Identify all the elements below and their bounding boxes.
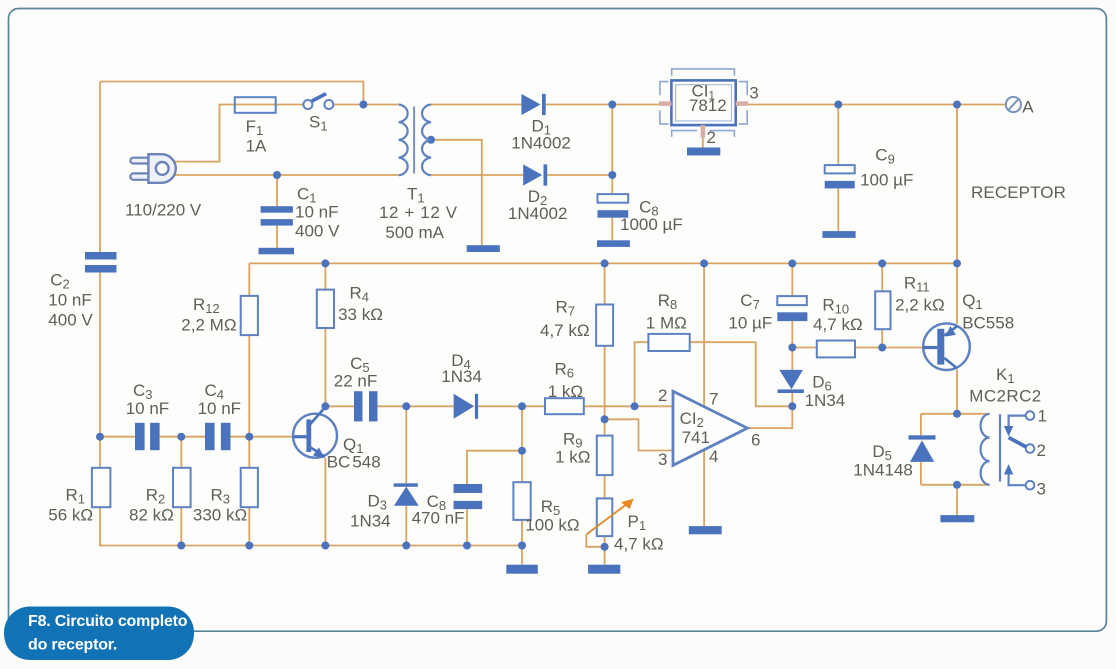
- svg-text:1 kΩ: 1 kΩ: [548, 382, 583, 401]
- svg-text:10 nF: 10 nF: [126, 399, 169, 418]
- capacitor C2: [85, 252, 117, 260]
- wire R10 row to Q1 base: [792, 347, 923, 349]
- node C3 left: [96, 433, 104, 441]
- wire signal row C5 to D4: [378, 405, 454, 407]
- wire +12V rail: [249, 262, 957, 264]
- relay contact 2 arm: [1026, 444, 1035, 453]
- node C8b tap: [518, 447, 526, 455]
- svg-text:56 kΩ: 56 kΩ: [48, 506, 93, 525]
- wire C3 C4 row to Q1 base: [100, 436, 293, 438]
- diode D5: [909, 435, 936, 439]
- svg-text:470 nF: 470 nF: [412, 509, 465, 528]
- svg-text:6: 6: [751, 431, 760, 450]
- node bottom rail D3: [402, 542, 410, 550]
- potentiometer P1 arrow: [586, 504, 626, 534]
- wire CI2 pin3: [605, 419, 673, 450]
- wire CI2 pin7 column: [703, 263, 705, 407]
- node relay bottom: [953, 481, 961, 489]
- ground CI2 pin4: [689, 526, 722, 534]
- wire CI1 output to terminal A: [748, 104, 1005, 106]
- svg-text:MC2RC2: MC2RC2: [969, 387, 1041, 406]
- svg-text:1N34: 1N34: [441, 367, 482, 386]
- svg-text:1N34: 1N34: [805, 391, 846, 410]
- svg-text:BC558: BC558: [962, 314, 1014, 333]
- diode D1: [521, 94, 540, 115]
- svg-text:330 kΩ: 330 kΩ: [193, 506, 247, 525]
- svg-text:2,2 kΩ: 2,2 kΩ: [895, 296, 945, 315]
- svg-text:400 V: 400 V: [295, 222, 340, 241]
- resistor R7: [596, 305, 613, 346]
- node bottom rail R2: [177, 542, 185, 550]
- resistor R5: [513, 482, 530, 520]
- svg-text:1 kΩ: 1 kΩ: [555, 448, 590, 467]
- resistor R12: [241, 296, 258, 335]
- svg-text:1N4002: 1N4002: [511, 134, 571, 153]
- relay K1 coil: [981, 414, 990, 485]
- node rail R7: [601, 259, 609, 267]
- svg-text:12 + 12 V: 12 + 12 V: [379, 203, 458, 222]
- wire T1 secondary bottom to D2: [431, 174, 523, 176]
- svg-text:2,2 MΩ: 2,2 MΩ: [181, 316, 236, 335]
- node D2 output: [608, 171, 616, 179]
- svg-text:82 kΩ: 82 kΩ: [129, 506, 174, 525]
- svg-text:1000 µF: 1000 µF: [620, 215, 683, 234]
- CI1 pin input: [659, 101, 672, 106]
- svg-text:A: A: [1022, 98, 1034, 117]
- wire feedback via R8: [635, 342, 793, 406]
- svg-text:F8. Circuito completo: F8. Circuito completo: [28, 613, 188, 630]
- node R2 tap: [177, 433, 185, 441]
- node bottom rail emitter: [321, 542, 329, 550]
- resistor R8: [648, 334, 689, 351]
- mains plug: [130, 158, 149, 164]
- wire R3 column: [248, 437, 250, 546]
- svg-text:1A: 1A: [246, 137, 267, 156]
- capacitor C7: [777, 296, 807, 305]
- node bottom rail R3: [245, 542, 253, 550]
- resistor R9: [597, 436, 613, 476]
- CI1 bracket left: [660, 82, 669, 124]
- diode D4: [454, 394, 475, 419]
- wire mains neutral plug to T1 primary bottom: [174, 174, 399, 176]
- node T1 center tap: [427, 136, 435, 144]
- wire D5 column: [920, 414, 922, 485]
- wire right vertical A rail to Q1 emitter: [956, 105, 958, 325]
- wire C1 branch: [276, 175, 278, 248]
- CI1 pin 3 output: [736, 101, 749, 106]
- svg-text:3: 3: [749, 84, 758, 103]
- CI1 pin 2 ground: [701, 125, 706, 138]
- wire C8 column: [611, 105, 613, 241]
- ground relay K1: [940, 515, 974, 522]
- ground C9: [822, 231, 855, 238]
- ground T1 center tap: [467, 245, 500, 252]
- svg-text:1 MΩ: 1 MΩ: [646, 314, 687, 333]
- node Q1 collector: [321, 402, 329, 410]
- svg-text:33 kΩ: 33 kΩ: [338, 305, 383, 324]
- transformer T1 primary winding: [399, 105, 408, 176]
- wire signal row D4 to R6: [478, 405, 545, 407]
- CI1 bracket bottom: [672, 131, 735, 137]
- svg-text:10 nF: 10 nF: [198, 399, 241, 418]
- ground R5: [506, 565, 538, 574]
- wire C8b jog: [467, 451, 522, 546]
- svg-text:3: 3: [1037, 480, 1046, 499]
- resistor R4: [317, 290, 334, 328]
- wire signal row R6 to CI2 pin2: [584, 405, 673, 407]
- node bottom rail R5: [518, 542, 526, 550]
- wire S1 to T1 primary top: [333, 104, 398, 106]
- relay K1 core: [999, 414, 1001, 481]
- wire CI2 pin6 to D6 node: [747, 406, 792, 428]
- wire R12 column: [248, 263, 250, 436]
- wire R2 column: [180, 437, 182, 546]
- svg-text:2: 2: [658, 386, 667, 405]
- ground P1: [588, 565, 620, 574]
- capacitor C1: [261, 206, 293, 213]
- svg-text:1N4148: 1N4148: [853, 461, 913, 480]
- fuse F1: [235, 97, 276, 113]
- resistor R11: [875, 291, 890, 329]
- svg-text:110/220 V: 110/220 V: [125, 201, 202, 220]
- node rail C7: [788, 259, 796, 267]
- svg-text:7: 7: [709, 390, 718, 409]
- resistor R1: [92, 468, 111, 507]
- node feedback tap: [631, 402, 639, 410]
- node A rail corner: [953, 101, 961, 109]
- wire mains live plug to fuse F1 to S1: [174, 105, 303, 162]
- capacitor C5: [354, 391, 363, 421]
- wire R5 column: [521, 406, 523, 564]
- svg-text:do receptor.: do receptor.: [28, 637, 117, 654]
- wire D3 column: [405, 406, 407, 545]
- node rail right end: [953, 259, 961, 267]
- op-amp CI2 741: [673, 391, 747, 465]
- diode D3: [394, 483, 418, 487]
- svg-text:400 V: 400 V: [48, 311, 93, 330]
- regulator CI1 7812 box: [671, 80, 735, 125]
- svg-text:2: 2: [707, 128, 716, 147]
- svg-text:22 nF: 22 nF: [334, 372, 377, 391]
- wire Q1 collector to relay K1: [956, 370, 958, 414]
- node bottom rail C8b: [463, 542, 471, 550]
- svg-text:100 µF: 100 µF: [860, 171, 913, 190]
- resistor R2: [173, 468, 191, 507]
- wire signal row collector to C5: [325, 405, 354, 407]
- wire C9 column: [837, 105, 839, 232]
- transistor Q1 BC558: [923, 323, 970, 370]
- svg-text:2: 2: [1037, 441, 1046, 460]
- wire Q1 emitter column: [324, 458, 326, 546]
- potentiometer P1: [597, 498, 613, 536]
- wire relay ground stub: [956, 485, 958, 515]
- node D1 output: [608, 101, 616, 109]
- wire R11 column: [881, 263, 883, 347]
- node D3 tap: [402, 402, 410, 410]
- svg-text:4,7 kΩ: 4,7 kΩ: [813, 315, 863, 334]
- capacitor C3: [135, 423, 145, 450]
- svg-text:1: 1: [1038, 407, 1047, 426]
- node P1 ground: [601, 543, 609, 551]
- svg-text:10 nF: 10 nF: [48, 291, 91, 310]
- node R9 pin3: [601, 415, 609, 423]
- wire T1 center tap to ground: [431, 140, 482, 245]
- wire T1 secondary top to D1: [431, 104, 521, 106]
- svg-text:7812: 7812: [689, 96, 727, 115]
- node R10 R11 base: [878, 344, 886, 352]
- transformer T1 secondary winding: [422, 105, 431, 176]
- CI1 bracket right: [739, 82, 748, 124]
- ground C8: [597, 240, 630, 247]
- node S1-T1 junction: [359, 101, 367, 109]
- node C1 tap: [273, 171, 281, 179]
- svg-text:100 kΩ: 100 kΩ: [525, 516, 579, 535]
- svg-text:RECEPTOR: RECEPTOR: [971, 183, 1066, 202]
- node relay top: [953, 410, 961, 418]
- transistor Q1 BC548: [293, 414, 337, 458]
- svg-text:4,7 kΩ: 4,7 kΩ: [614, 535, 664, 554]
- CI1 bracket top: [672, 69, 735, 76]
- svg-text:10 nF: 10 nF: [295, 203, 338, 222]
- wire D1 cathode to CI1 input: [546, 104, 659, 106]
- node rail R11: [878, 259, 886, 267]
- node R5 tap: [518, 402, 526, 410]
- svg-text:741: 741: [682, 428, 710, 447]
- capacitor C8 1000uF: [598, 194, 629, 203]
- wire CI2 pin4 to ground: [703, 450, 705, 527]
- node C7 R10: [788, 344, 796, 352]
- svg-text:4,7 kΩ: 4,7 kΩ: [540, 321, 590, 340]
- diode D2: [523, 164, 542, 185]
- svg-text:10 µF: 10 µF: [728, 314, 772, 333]
- resistor R6: [545, 398, 584, 414]
- wire R9 P1 column: [604, 419, 606, 564]
- capacitor C8b 470nF: [454, 484, 483, 493]
- wire relay top row: [921, 413, 990, 415]
- node D6 pin6: [788, 402, 796, 410]
- wire R4 column: [324, 263, 326, 406]
- capacitor C4: [205, 423, 215, 450]
- transformer T1 core: [413, 107, 415, 174]
- resistor R10: [817, 341, 855, 358]
- wire D6 stubs: [791, 348, 793, 407]
- relay contact 3: [1026, 481, 1035, 490]
- relay contact 1: [1026, 411, 1035, 420]
- switch S1: [303, 100, 312, 109]
- wire CI1 pin2 to ground: [702, 138, 704, 148]
- wire left vertical R1 to bottom rail: [100, 507, 522, 545]
- svg-text:500 mA: 500 mA: [385, 223, 444, 242]
- wire top bypass loop: [100, 82, 363, 105]
- wire R7 column: [604, 263, 606, 419]
- node rail pin7: [700, 259, 708, 267]
- diode D6: [779, 370, 803, 389]
- node R3 R12 base: [245, 433, 253, 441]
- node C9 tap: [834, 101, 842, 109]
- wire C7 column: [791, 263, 793, 347]
- figure caption pill: [4, 607, 194, 661]
- capacitor C9: [825, 165, 855, 173]
- wire relay bottom row: [921, 484, 990, 486]
- svg-text:3: 3: [658, 450, 667, 469]
- svg-text:BC548: BC548: [327, 453, 381, 472]
- wire D2 cathode to C8 node: [547, 174, 612, 176]
- svg-text:4: 4: [709, 447, 718, 466]
- node rail R4: [321, 259, 329, 267]
- wire left vertical C2 to R1: [99, 273, 101, 468]
- wire left vertical to C2: [99, 82, 101, 253]
- svg-text:1N34: 1N34: [350, 512, 391, 531]
- resistor R3: [241, 468, 258, 507]
- svg-text:1N4002: 1N4002: [508, 204, 568, 223]
- ground CI1: [687, 148, 720, 156]
- terminal A: [1006, 97, 1021, 112]
- wire P1 wiper hook: [586, 535, 604, 547]
- ground C1: [259, 248, 295, 255]
